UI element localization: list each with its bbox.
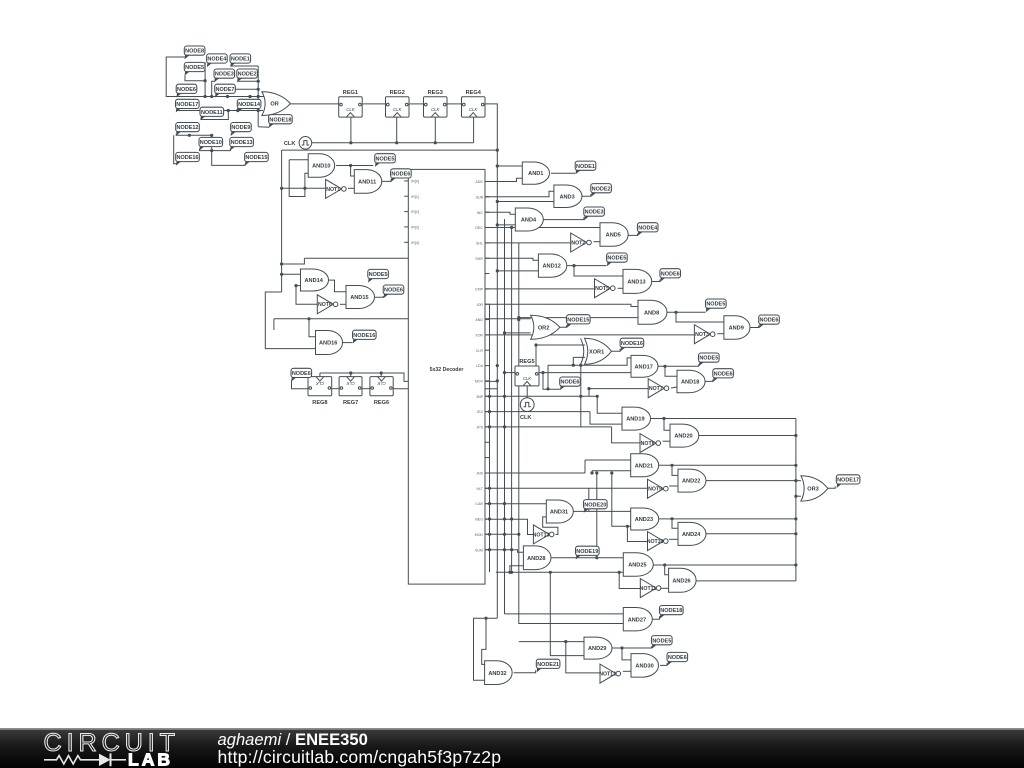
and-gate AND30 [631, 654, 659, 678]
svg-text:DEC: DEC [475, 226, 483, 230]
junction [590, 471, 593, 474]
node NODE5 [699, 353, 720, 366]
svg-text:NOT9: NOT9 [648, 487, 662, 493]
svg-text:AND10: AND10 [312, 164, 330, 170]
wire [166, 57, 258, 97]
junction [349, 141, 352, 144]
wire [485, 242, 571, 244]
wire [669, 485, 678, 487]
and-gate AND26 [669, 568, 697, 592]
wire [204, 62, 206, 97]
wire pin stub [485, 487, 490, 489]
svg-text:NODE5: NODE5 [607, 256, 626, 262]
and-gate AND14 [301, 269, 329, 291]
svg-text:OR2: OR2 [538, 325, 550, 331]
wire [201, 111, 229, 120]
wire [336, 165, 373, 167]
svg-text:AND12: AND12 [543, 264, 561, 270]
wire [200, 135, 212, 150]
wire [619, 572, 640, 588]
svg-text:NODE2: NODE2 [592, 186, 611, 192]
wire [696, 580, 796, 582]
svg-text:NODE6: NODE6 [714, 371, 733, 377]
junction [517, 316, 520, 319]
register REG8 (D flip-flop) [308, 377, 332, 406]
junction [349, 164, 352, 167]
and-gate AND5 [600, 223, 628, 247]
wire [237, 80, 258, 82]
wire [265, 292, 315, 349]
svg-text:AND18: AND18 [681, 380, 699, 386]
register REG6 (D flip-flop) [370, 377, 393, 406]
wire [519, 622, 624, 623]
svg-text:NODE21: NODE21 [537, 662, 559, 668]
svg-text:NODE15: NODE15 [567, 317, 589, 323]
and-gate AND31 [546, 500, 573, 523]
wire bus B0 [489, 304, 491, 572]
wire [485, 212, 515, 214]
node NODE7 [215, 84, 236, 97]
svg-text:NODE16: NODE16 [353, 333, 375, 339]
svg-text:XOR: XOR [475, 334, 483, 338]
wire [543, 372, 631, 374]
wire [580, 365, 582, 427]
junction [670, 517, 673, 520]
svg-text:JMP: JMP [476, 395, 484, 399]
or-gate OR [262, 92, 291, 116]
node NODE8 [184, 46, 205, 59]
wire [514, 670, 536, 672]
wire [410, 103, 424, 105]
svg-text:LDA: LDA [476, 364, 484, 368]
wire [497, 201, 554, 203]
wire bus B2 [504, 219, 506, 614]
wire [496, 571, 623, 573]
and-gate AND1 [522, 162, 549, 184]
wire [505, 372, 516, 374]
junction [496, 379, 499, 382]
svg-text:NODE6: NODE6 [177, 87, 196, 93]
svg-text:AND21: AND21 [635, 463, 653, 469]
junction [674, 311, 677, 314]
node NODE10 [199, 137, 223, 150]
svg-text:REG3: REG3 [428, 90, 443, 96]
svg-text:NODE13: NODE13 [231, 140, 253, 146]
and-gate AND22 [678, 469, 706, 492]
wire OR3 input bus [795, 419, 797, 581]
wire [566, 642, 600, 673]
junction [496, 269, 499, 272]
svg-text:NODE5: NODE5 [652, 638, 671, 644]
junction [595, 471, 598, 474]
node NODE6 [759, 315, 780, 328]
wire [485, 227, 512, 229]
svg-text:AND26: AND26 [672, 578, 690, 584]
svg-text:NODE11: NODE11 [201, 110, 223, 116]
wire [485, 304, 638, 306]
wire [312, 142, 474, 144]
wire [588, 389, 590, 397]
wire [281, 150, 283, 292]
junction [546, 387, 549, 390]
junction [294, 284, 297, 287]
wire [664, 419, 670, 431]
svg-text:AND13: AND13 [627, 280, 645, 286]
and-gate AND27 [623, 608, 652, 631]
node NODE16 [353, 330, 377, 343]
wire [497, 224, 515, 226]
svg-text:CLK: CLK [523, 376, 532, 381]
junction [280, 273, 283, 276]
svg-text:IR[0]: IR[0] [411, 180, 419, 184]
wire [676, 312, 724, 322]
svg-text:NODE5: NODE5 [369, 272, 388, 278]
svg-text:CAR: CAR [475, 502, 483, 506]
not-gate NOT11 [640, 579, 661, 598]
wire [485, 533, 519, 535]
node NODE6 [660, 269, 681, 282]
junction [510, 548, 513, 551]
wire [380, 373, 382, 377]
wire [497, 270, 538, 272]
and-gate AND3 [554, 185, 582, 208]
svg-text:REG7: REG7 [343, 400, 358, 406]
or-gate OR3 [801, 476, 828, 501]
wire [706, 480, 801, 482]
svg-text:NODE6: NODE6 [668, 655, 687, 661]
svg-text:AND17: AND17 [635, 364, 653, 370]
junction [257, 80, 260, 83]
svg-text:NODE4: NODE4 [638, 225, 658, 231]
wire [296, 285, 301, 287]
svg-text:NOT13: NOT13 [533, 532, 550, 538]
wire [274, 318, 531, 320]
junction [794, 434, 797, 437]
node NODE17 [836, 475, 860, 488]
junction [303, 187, 306, 190]
wire [320, 373, 497, 381]
wire [485, 519, 533, 534]
junction [488, 517, 491, 520]
wire [296, 286, 317, 305]
wire [543, 517, 558, 535]
wire [665, 565, 669, 575]
svg-text:NODE16: NODE16 [621, 341, 643, 347]
5x32 decoder U1 [404, 169, 485, 584]
junction [395, 141, 398, 144]
and-gate AND19 [622, 407, 651, 430]
svg-text:AND15: AND15 [350, 295, 368, 301]
wire bus B4 [518, 243, 520, 622]
node NODE6 [291, 368, 312, 381]
not-gate NOT6 [317, 295, 338, 314]
wire [393, 388, 497, 390]
junction [626, 525, 629, 528]
svg-text:REG2: REG2 [390, 90, 405, 96]
svg-text:ADD: ADD [475, 180, 483, 184]
junction [307, 317, 310, 320]
register REG7 (D flip-flop) [339, 377, 362, 406]
junction [488, 502, 491, 505]
and-gate AND28 [523, 546, 551, 570]
node NODE9 [231, 123, 252, 136]
wire [573, 357, 585, 365]
svg-text:NODE14: NODE14 [238, 102, 261, 108]
CircuitLab logo resistor-diode squiggle [44, 756, 99, 764]
node NODE5 [375, 154, 396, 167]
xor-gate XOR1 [581, 338, 612, 364]
wire [174, 135, 177, 164]
wire [348, 187, 354, 189]
junction [517, 533, 520, 536]
junction [434, 141, 437, 144]
wire [659, 518, 796, 520]
register REG4 (D flip-flop) [462, 90, 486, 117]
junction [572, 264, 575, 267]
wire [230, 134, 232, 136]
junction [596, 395, 599, 398]
and-gate AND8 [638, 300, 667, 324]
junction [564, 640, 567, 643]
svg-text:NODE5: NODE5 [706, 302, 725, 308]
svg-text:AND24: AND24 [682, 532, 701, 538]
wire [628, 234, 637, 236]
svg-text:HLT: HLT [476, 487, 483, 491]
wire [212, 81, 215, 96]
wire [176, 110, 262, 112]
wire [485, 550, 523, 553]
junction [618, 571, 621, 574]
wire [828, 486, 835, 488]
wire pin stub [485, 196, 490, 198]
register REG1 (D flip-flop) [339, 90, 363, 117]
wire [485, 178, 522, 181]
register REG2 (D flip-flop) [386, 90, 410, 117]
svg-text:CLR: CLR [476, 349, 484, 353]
wire [375, 296, 384, 297]
wire [665, 366, 677, 376]
junction [503, 502, 506, 505]
svg-text:AND29: AND29 [588, 646, 606, 652]
node NODE16 [176, 152, 200, 165]
svg-text:NODE17: NODE17 [837, 478, 859, 484]
wire [547, 365, 549, 389]
wire [485, 472, 585, 474]
wire pin stub [485, 319, 490, 321]
svg-text:NOT3: NOT3 [695, 332, 709, 338]
node NODE16 [620, 338, 644, 351]
junction [508, 571, 511, 574]
svg-text:SUB: SUB [476, 195, 484, 199]
wire [342, 342, 352, 344]
svg-text:SHL: SHL [476, 242, 483, 246]
junction [257, 109, 260, 112]
not-gate NOT8 [640, 434, 661, 453]
junction [510, 571, 513, 574]
svg-text:MOD: MOD [475, 533, 484, 537]
node NODE5 [607, 253, 628, 266]
wire [699, 435, 796, 437]
wire [447, 103, 461, 105]
junction [503, 425, 506, 428]
not-gate NOT2 [571, 233, 592, 252]
junction [227, 109, 230, 112]
svg-text:IOR: IOR [477, 303, 484, 307]
junction [204, 95, 207, 98]
svg-text:NODE8: NODE8 [185, 49, 204, 55]
junction [496, 149, 499, 152]
node NODE2 [591, 184, 612, 197]
wire pin stub [485, 257, 490, 259]
wire [594, 241, 601, 243]
wire [661, 587, 669, 589]
wire [622, 648, 631, 660]
svg-text:AND32: AND32 [488, 671, 506, 677]
node NODE12 [176, 123, 200, 136]
wire [618, 287, 624, 289]
node NODE6 [391, 169, 412, 182]
clock source CLK [284, 137, 312, 150]
wire [382, 179, 391, 181]
not-gate NOT7 [648, 379, 669, 398]
wire [560, 325, 567, 327]
svg-text:NODE1: NODE1 [576, 164, 595, 170]
junction [572, 364, 575, 367]
wire [512, 227, 600, 229]
wire pin stub [485, 242, 490, 244]
wire pin stub [485, 288, 490, 290]
wire [332, 388, 339, 390]
wire [663, 440, 670, 442]
junction [496, 364, 499, 367]
wire [652, 280, 660, 282]
wire [396, 117, 398, 143]
and-gate AND12 [538, 254, 566, 277]
and-gate AND4 [515, 208, 543, 231]
svg-text:REG5: REG5 [519, 359, 534, 365]
svg-text:NODE6: NODE6 [391, 172, 410, 178]
svg-text:NOT8: NOT8 [641, 441, 655, 447]
wire [584, 460, 586, 473]
wire [588, 488, 590, 511]
svg-text:NODE1: NODE1 [231, 57, 250, 63]
wire pin stub [485, 533, 490, 535]
wire [282, 187, 326, 189]
node NODE6 [176, 84, 197, 97]
wire [589, 388, 648, 390]
wire pin stub [485, 411, 490, 413]
junction [794, 495, 797, 498]
wire [482, 618, 486, 664]
junction [257, 88, 260, 91]
and-gate AND17 [631, 355, 658, 377]
svg-text:NODE2: NODE2 [238, 72, 257, 78]
junction [579, 364, 582, 367]
svg-text:AND8: AND8 [644, 310, 659, 316]
wire pin stub [485, 395, 490, 397]
wire [485, 411, 590, 413]
wire [212, 149, 231, 151]
svg-text:CLK: CLK [346, 107, 355, 112]
wire [485, 426, 612, 428]
junction [503, 517, 506, 520]
svg-text:AND14: AND14 [305, 278, 324, 284]
wire [363, 103, 386, 105]
node NODE20 [584, 500, 608, 513]
junction [210, 149, 213, 152]
wire [590, 412, 622, 425]
svg-text:AND1: AND1 [528, 171, 543, 177]
svg-text:AND4: AND4 [521, 218, 537, 224]
wire [231, 65, 259, 67]
wire [574, 266, 623, 276]
junction [488, 533, 491, 536]
wire [258, 110, 263, 112]
svg-text:AND30: AND30 [635, 664, 653, 670]
wire [612, 473, 631, 526]
node NODE5 [368, 269, 389, 282]
svg-text:REG6: REG6 [374, 400, 389, 406]
svg-text:MOV: MOV [475, 380, 484, 384]
wire [340, 303, 346, 305]
wire [653, 616, 660, 619]
svg-text:IR[3]: IR[3] [411, 226, 419, 230]
wire pin stub [485, 303, 490, 305]
wire [505, 332, 531, 334]
wire [671, 387, 677, 388]
node NODE15 [567, 315, 591, 328]
wire [362, 388, 370, 390]
junction [794, 532, 797, 535]
svg-text:CLK: CLK [469, 107, 478, 112]
wire [706, 533, 796, 535]
wire pin stub [485, 503, 490, 505]
junction [248, 95, 251, 98]
junction [662, 417, 665, 420]
wire [485, 395, 597, 397]
wire [485, 191, 554, 197]
wire bus B3 [511, 228, 513, 573]
junction [541, 371, 544, 374]
wire [659, 464, 796, 466]
svg-text:CLK: CLK [315, 381, 324, 386]
wire [585, 459, 631, 461]
svg-text:REG8: REG8 [312, 400, 327, 406]
junction [204, 79, 207, 82]
and-gate AND15 [346, 286, 375, 309]
junction [663, 563, 666, 566]
junction [794, 517, 797, 520]
svg-text:LAB: LAB [128, 749, 173, 768]
junction [488, 410, 491, 413]
wire pin stub [485, 472, 490, 474]
wire [623, 670, 631, 672]
and-gate AND23 [631, 508, 659, 530]
wire [651, 418, 796, 420]
svg-text:NODE5: NODE5 [376, 156, 395, 162]
wire [273, 319, 275, 330]
node NODE1 [575, 161, 596, 174]
and-gate AND32 [485, 661, 513, 685]
footer bar [0, 728, 1024, 768]
svg-text:AND20: AND20 [674, 434, 692, 440]
node NODE5 [706, 299, 727, 312]
svg-text:NODE20: NODE20 [584, 502, 606, 508]
wire [539, 373, 560, 390]
svg-text:OR3: OR3 [807, 487, 819, 493]
and-gate AND20 [670, 424, 699, 447]
junction [503, 371, 506, 374]
